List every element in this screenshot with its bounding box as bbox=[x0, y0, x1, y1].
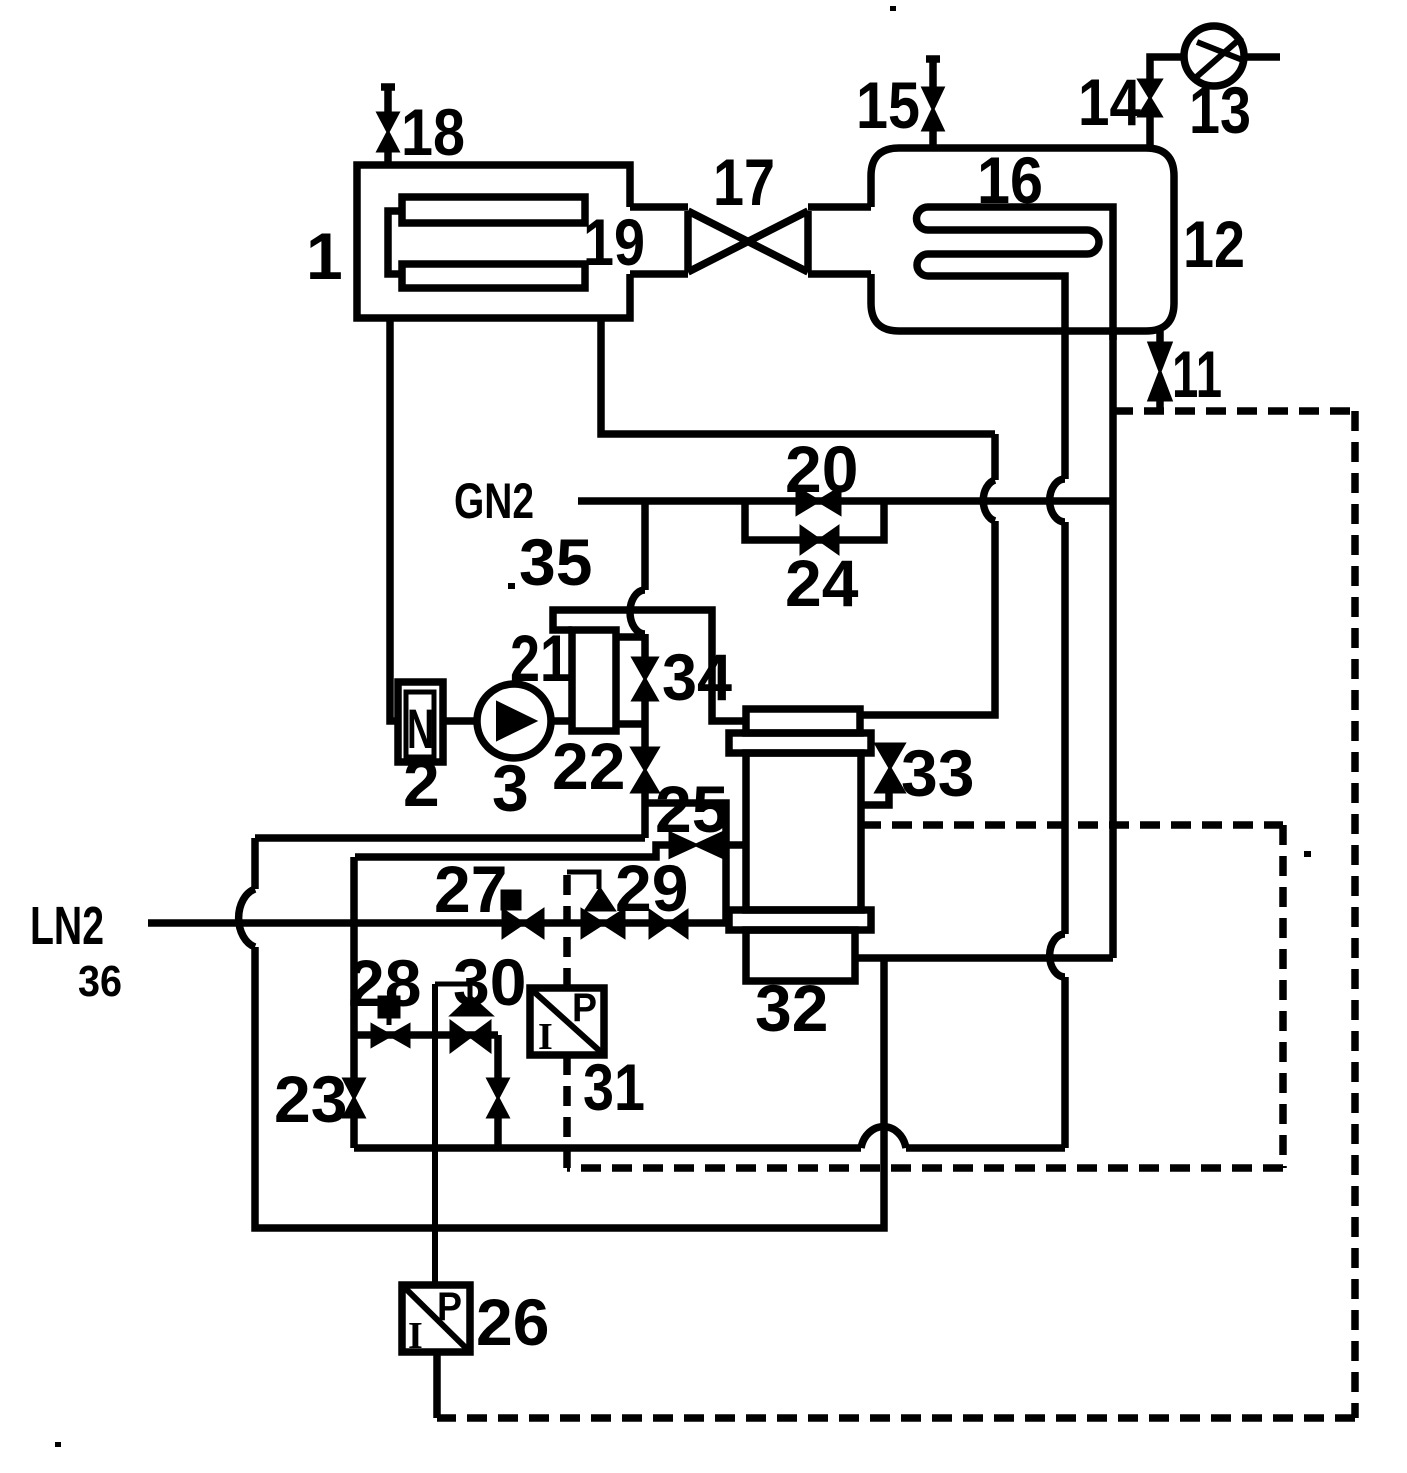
wire (pump 3 discharge to heat exchanger 21) bbox=[551, 717, 572, 725]
svg-text:30: 30 bbox=[453, 945, 526, 1019]
node GN2 (gas nitrogen header) bbox=[578, 497, 1113, 505]
wire (stub vessel 12 top to valve 14) bbox=[1146, 116, 1154, 148]
wire (stub vessel 1 top to valve 18) bbox=[384, 151, 392, 165]
valve 27 (valve on LN2 line, horizontal bowtie) bbox=[503, 910, 543, 937]
svg-text:33: 33 bbox=[901, 736, 974, 810]
svg-text:P: P bbox=[572, 986, 597, 1030]
wire (valve row header y1035) bbox=[354, 1031, 498, 1039]
wire (segment below valve 22 down to left header) bbox=[641, 792, 649, 838]
speck (scan dot near label 35) bbox=[508, 583, 515, 589]
wire (corner down from valve row to vent valve) bbox=[494, 1035, 502, 1079]
wire (dashed control line from valve 11 around right side to transducer 26) bbox=[1113, 407, 1355, 415]
svg-text:12: 12 bbox=[1183, 207, 1245, 281]
wire (HX 21 bottom-right link to main vertical) bbox=[616, 720, 645, 728]
wire (line y958 from vessel 32 bottom to x1113) bbox=[855, 954, 1113, 962]
wire (bypass loop around valve 20) bbox=[745, 501, 884, 540]
svg-text:17: 17 bbox=[713, 145, 775, 219]
wire (dashed control loop from vessel 32 right side to transducer 31) bbox=[861, 821, 1283, 829]
svg-text:24: 24 bbox=[785, 546, 859, 620]
valve 20 (valve on GN2 header, horizontal bowtie) bbox=[797, 488, 840, 514]
actuator of valve 27 (solenoid box) bbox=[502, 891, 520, 909]
valve 17 (large gate valve between vessel 1 and vessel 12) bbox=[688, 211, 808, 272]
speck (scan dot right of vessel 32 loop) bbox=[1304, 851, 1311, 857]
vessel 32 body bbox=[746, 753, 861, 910]
plate 19a (upper internal plate of vessel 1) bbox=[402, 197, 585, 223]
wire (vessel 12 outlet line x1113 down to y958) bbox=[1109, 331, 1117, 958]
wire (signal link from dashed line to actuator 29) bbox=[567, 872, 599, 889]
svg-text:25: 25 bbox=[655, 772, 728, 846]
svg-text:15: 15 bbox=[856, 68, 920, 142]
wire (right downcomer lower segment and link to vessel 32 top) bbox=[860, 521, 995, 715]
wire (left connector joining plates inside vessel 1) bbox=[388, 211, 402, 274]
wire (horizontal header y838 to left loop) bbox=[255, 834, 645, 842]
wire (left loop vertical down and bottom run) bbox=[255, 947, 884, 1228]
valve 11 (control valve under vessel 12, vertical bowtie) bbox=[1149, 343, 1171, 400]
svg-text:29: 29 bbox=[615, 851, 688, 925]
wire (stub vessel 12 top to valve 15) bbox=[929, 130, 937, 148]
vessel 32 top flange bbox=[729, 733, 871, 753]
valve 30 (control valve, horizontal bowtie) bbox=[451, 1022, 490, 1051]
wire (coil return line x1065, middle segment) bbox=[1061, 522, 1069, 934]
svg-text:22: 22 bbox=[552, 729, 625, 803]
vessel 1 (heat-exchanger tank, outline with right port gap) bbox=[357, 165, 630, 318]
valve 29a (control valve on LN2 line, horizontal bowtie) bbox=[582, 910, 624, 937]
valve 29b (second bowtie of valve 29) bbox=[650, 911, 687, 937]
valve 34 (vertical bowtie) bbox=[633, 658, 657, 700]
actuator of valve 29 (diaphragm triangle) bbox=[586, 889, 614, 910]
svg-text:32: 32 bbox=[755, 971, 828, 1045]
wire (right downcomer upper segment) bbox=[991, 434, 999, 480]
component 2 (inline element N, double-walled box) bbox=[398, 682, 443, 762]
svg-text:31: 31 bbox=[583, 1050, 645, 1124]
valve 15 (vent valve on vessel 12, vertical bowtie) bbox=[923, 88, 943, 130]
svg-text:13: 13 bbox=[1189, 73, 1251, 147]
plate 19b (lower internal plate of vessel 1) bbox=[402, 264, 585, 288]
pump 13 (vacuum pump, circle with internal wedge) bbox=[1184, 26, 1244, 86]
actuator of valve 30 (diaphragm triangle) bbox=[452, 997, 491, 1015]
wire (segment to junction with HX 21 top) bbox=[641, 634, 649, 658]
wire (bottom run y1148 right part) bbox=[906, 1144, 1065, 1152]
vessel 32 bottom plug bbox=[746, 930, 855, 981]
svg-text:36: 36 bbox=[78, 957, 122, 1006]
wire (open stub above valve 18, with end bar) bbox=[381, 86, 395, 113]
wire (crossover jump of left loop over LN2 line) bbox=[239, 889, 255, 947]
wire (vent valve down to bottom run) bbox=[494, 1117, 502, 1148]
wire (riser from valve 14 to pump 13 suction line) bbox=[1150, 57, 1184, 80]
wire (crossover jump of right downcomer over GN2) bbox=[983, 480, 995, 521]
svg-text:3: 3 bbox=[492, 751, 529, 825]
valve 23 (vertical bowtie on left vertical) bbox=[344, 1079, 364, 1117]
svg-text:I: I bbox=[538, 1016, 553, 1058]
wire (open stub above valve 15, with end bar) bbox=[926, 58, 940, 88]
wire (vertical from GN2 header down, upper segment) bbox=[641, 501, 649, 590]
wire (elbow from vessel 32 right side up to valve 33) bbox=[861, 792, 889, 805]
coil 16 (serpentine heat exchanger coil inside vessel 12) bbox=[917, 207, 1113, 340]
svg-text:21: 21 bbox=[510, 621, 570, 695]
wire (pump 13 discharge stub) bbox=[1244, 53, 1280, 61]
valve 22 (vertical bowtie) bbox=[632, 748, 658, 792]
svg-text:27: 27 bbox=[434, 852, 507, 926]
wire (signal link from vertical x435 to actuator 30) bbox=[435, 984, 470, 998]
valve 28 (horizontal bowtie) bbox=[372, 1025, 409, 1046]
speck (scan dot top center) bbox=[890, 6, 896, 11]
valve 24 (bypass valve, horizontal bowtie) bbox=[801, 527, 838, 553]
wire (left loop vertical, upper segment) bbox=[251, 838, 259, 889]
svg-text:23: 23 bbox=[274, 1062, 347, 1136]
valve 18 (vent valve, vertical bowtie) bbox=[378, 113, 398, 151]
wire (signal line x435 down to transducer 26) bbox=[432, 984, 438, 1285]
wire (vessel 1 left downcomer to component 2) bbox=[390, 318, 398, 721]
vessel 32 (phase separator: top plug) bbox=[746, 709, 860, 733]
wire (crossover jump of coil return over y958 line) bbox=[1050, 934, 1065, 977]
wire (coil return line x1065, bottom segment) bbox=[1061, 977, 1069, 1148]
valve 14 (valve to vacuum pump, vertical bowtie) bbox=[1139, 80, 1161, 116]
svg-text:20: 20 bbox=[785, 432, 858, 506]
speck (scan dot bottom left) bbox=[55, 1442, 61, 1447]
actuator of valve 28 (solenoid box) bbox=[379, 997, 399, 1017]
wire (port from valve 17 to vessel 12) bbox=[808, 207, 871, 274]
wire (branch from vertical to LN2 line right end) bbox=[645, 803, 726, 923]
transducer 26 (P/I converter box) bbox=[402, 1285, 470, 1352]
valve (unlabeled vent bowtie below valve 30) bbox=[488, 1079, 508, 1117]
valve 33 (vent valve on vessel 32, vertical bowtie) bbox=[876, 744, 904, 792]
svg-text:34: 34 bbox=[662, 640, 732, 714]
wire (port from vessel 1 to valve 17, two parallel lines) bbox=[630, 207, 688, 274]
wire (valve 25 to vessel 32 left side) bbox=[722, 841, 746, 849]
svg-text:P: P bbox=[437, 1285, 462, 1329]
heat exchanger 21 (vertical rectangle) bbox=[572, 630, 616, 731]
vessel 12 (rounded tank, outline with left port gap) bbox=[871, 148, 1174, 331]
svg-text:26: 26 bbox=[476, 1285, 549, 1359]
wire (dashed vertical through transducer 31) bbox=[563, 872, 571, 1168]
valve 25 (feed valve to vessel 32, horizontal bowtie) bbox=[670, 833, 722, 857]
svg-text:LN2: LN2 bbox=[30, 896, 104, 956]
wire (transducer 26 output down to dashed run) bbox=[433, 1352, 441, 1418]
svg-text:16: 16 bbox=[977, 143, 1043, 217]
svg-text:11: 11 bbox=[1172, 337, 1222, 411]
svg-text:19: 19 bbox=[583, 205, 645, 279]
svg-text:I: I bbox=[408, 1315, 423, 1357]
wire (coil return line x1065, top segment) bbox=[1061, 340, 1069, 479]
wire (line y434 from vessel 1 bottom right over to right downcomer) bbox=[601, 318, 995, 434]
transducer 31 (P/I converter box) bbox=[530, 988, 604, 1055]
svg-text:GN2: GN2 bbox=[454, 473, 534, 529]
wire (component 2 to pump 3 suction) bbox=[443, 717, 477, 725]
wire (stub vessel 12 bottom to valve 11) bbox=[1156, 331, 1164, 343]
wire (jump of bottom run over left-loop vertical) bbox=[861, 1127, 906, 1148]
wire (HX 21 top-right link to main vertical) bbox=[616, 633, 645, 641]
node LN2 (liquid nitrogen supply line) bbox=[148, 919, 726, 927]
svg-text:18: 18 bbox=[401, 95, 465, 169]
svg-text:2: 2 bbox=[403, 746, 440, 820]
pump 3 (circulation pump, circle with right-pointing triangle) bbox=[477, 684, 551, 758]
svg-text:35: 35 bbox=[519, 525, 592, 599]
vessel 32 bottom flange bbox=[729, 910, 871, 930]
wire (crossover jump of coil return over GN2) bbox=[1050, 479, 1065, 522]
wire (bottom run y1148 left part) bbox=[354, 1144, 861, 1152]
wire (vertical x354 from line B through LN2 down to bottom run) bbox=[350, 857, 358, 1148]
wire (segment between valve 34 and valve 22) bbox=[641, 700, 649, 748]
svg-text:14: 14 bbox=[1078, 65, 1141, 139]
svg-text:28: 28 bbox=[348, 946, 421, 1020]
wire (crossover jump over transfer line) bbox=[630, 590, 645, 634]
svg-text:1: 1 bbox=[306, 219, 343, 293]
wire (line from HX 21 top-left up and over to vessel 32 top) bbox=[553, 610, 746, 721]
wire (line B from left vertical to valve 25) bbox=[355, 845, 670, 857]
